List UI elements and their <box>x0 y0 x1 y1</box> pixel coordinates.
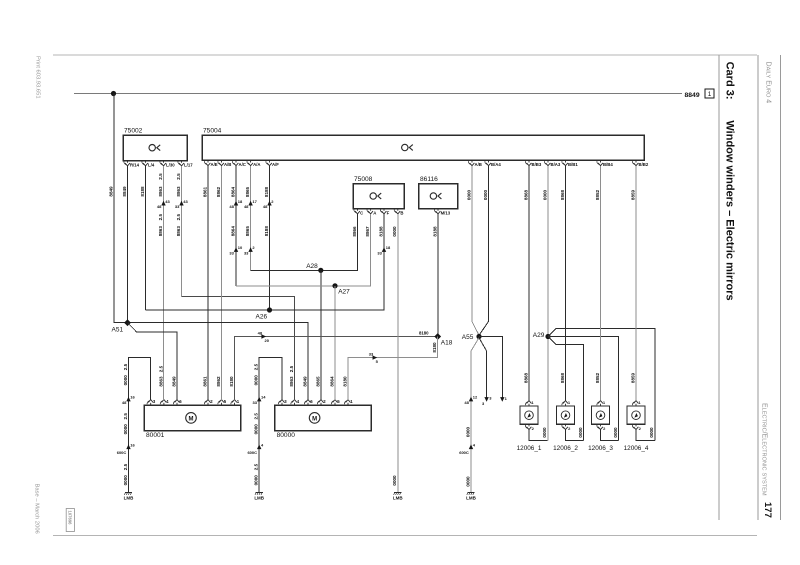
svg-text:0000: 0000 <box>254 475 259 486</box>
wire 12006_4 return to rail <box>636 430 655 441</box>
svg-text:0000: 0000 <box>392 226 397 237</box>
svg-text:8868: 8868 <box>560 189 565 200</box>
switch 86116 <box>419 184 458 209</box>
svg-text:8868: 8868 <box>560 372 565 383</box>
svg-text:A27: A27 <box>338 289 350 296</box>
ground branch 80000 <box>259 358 282 493</box>
wire 8864 from A/C to A27 <box>235 166 237 286</box>
svg-text:8849: 8849 <box>685 92 700 99</box>
svg-text:16: 16 <box>130 395 135 400</box>
svg-text:0000: 0000 <box>613 427 618 438</box>
node A18 <box>434 333 441 340</box>
svg-text:0000: 0000 <box>483 189 488 200</box>
svg-text:F: F <box>387 210 390 215</box>
wire 8188 from A/F to A26 <box>269 166 271 310</box>
wire A28 to 80000 pin 2 <box>320 270 322 400</box>
svg-text:Base – March 2006: Base – March 2006 <box>34 484 40 534</box>
svg-text:33: 33 <box>244 250 249 255</box>
svg-text:LMB: LMB <box>254 496 264 501</box>
node A51 <box>124 319 131 326</box>
ground LMB 80001 <box>125 492 132 494</box>
junction 48/20 <box>261 334 266 338</box>
svg-text:8863: 8863 <box>158 186 163 197</box>
pin 1 of 80001 <box>234 403 236 405</box>
svg-text:A18: A18 <box>441 340 453 347</box>
sheet reference box 1 <box>705 89 714 98</box>
svg-text:2.5: 2.5 <box>254 463 259 470</box>
svg-text:B/B3: B/B3 <box>532 162 542 167</box>
pin 5 of 80000 <box>334 403 336 405</box>
pin B of 75008 <box>397 209 399 211</box>
svg-text:8862: 8862 <box>216 186 221 197</box>
wire A51 to 80001 pin 6 <box>128 323 178 400</box>
svg-text:1: 1 <box>708 91 712 98</box>
svg-text:8180: 8180 <box>419 330 429 335</box>
svg-text:A/E: A/E <box>211 162 218 167</box>
wire 8865 from A/A to A28 <box>250 166 252 270</box>
svg-text:LMB: LMB <box>124 496 134 501</box>
svg-text:A51: A51 <box>112 326 124 333</box>
page frame top hairline <box>53 54 757 56</box>
svg-text:A/F: A/F <box>272 162 279 167</box>
window winder motor 80001 <box>144 405 241 431</box>
svg-text:A55: A55 <box>462 334 474 341</box>
svg-text:12006_3: 12006_3 <box>588 445 613 452</box>
svg-text:A/C: A/C <box>239 162 246 167</box>
svg-text:8188: 8188 <box>264 186 269 197</box>
pin A/A of 75004 <box>250 160 252 162</box>
node: bus junction <box>111 91 116 96</box>
svg-text:8852: 8852 <box>595 372 600 383</box>
wire 0000 B/A4 to A55 <box>479 166 489 335</box>
svg-text:8865: 8865 <box>315 376 320 387</box>
svg-text:0000: 0000 <box>578 427 583 438</box>
svg-text:48: 48 <box>157 204 162 209</box>
right sidebar title rule <box>718 55 720 520</box>
svg-text:M: M <box>189 416 194 422</box>
pin B/B2 of 75004 <box>635 160 637 162</box>
wire 12006_2 return to rail <box>566 430 584 441</box>
svg-text:14: 14 <box>261 395 266 400</box>
A29 branch middle to 12006_3 return <box>548 337 619 441</box>
svg-text:2.5: 2.5 <box>176 173 181 180</box>
A29 branch lower to 12006_2 return <box>548 337 584 441</box>
svg-text:C: C <box>360 210 363 215</box>
svg-text:0000: 0000 <box>542 427 547 438</box>
pin 2 of 12006_3 <box>600 424 602 426</box>
mirror actuator 12006_3 <box>592 406 610 424</box>
ground LMB 80000 <box>256 492 263 494</box>
svg-text:8861: 8861 <box>202 186 207 197</box>
pin 2 of 12006_4 <box>635 424 637 426</box>
wire A27 to 80000 pin 5 <box>334 286 336 400</box>
splice 600C 80000 <box>257 444 261 449</box>
svg-text:B/B1: B/B1 <box>568 162 578 167</box>
wire A18 to 80000 pin 1 <box>348 337 438 400</box>
svg-text:8865: 8865 <box>245 226 250 237</box>
svg-text:8867: 8867 <box>365 226 370 237</box>
svg-text:8180: 8180 <box>432 342 437 353</box>
svg-text:20: 20 <box>265 338 270 343</box>
bus wire 8849 <box>74 93 682 95</box>
svg-text:12006_2: 12006_2 <box>553 445 578 452</box>
svg-text:B/A4: B/A4 <box>491 162 501 167</box>
svg-text:107696: 107696 <box>68 511 73 526</box>
svg-text:177: 177 <box>762 502 773 518</box>
ground LMB A55 <box>467 492 474 494</box>
A29 branch upper to 12006_4 return <box>548 329 655 441</box>
pin 1 of 12006_1 <box>528 404 530 406</box>
svg-text:B/B4: B/B4 <box>603 162 613 167</box>
node A29 <box>545 334 550 339</box>
splice 600C 80001 <box>126 444 130 449</box>
node A27 <box>332 283 337 288</box>
svg-text:0000: 0000 <box>649 427 654 438</box>
svg-text:33: 33 <box>175 204 180 209</box>
wire 86116 M/13 to A18 <box>437 214 439 337</box>
wire 0000 75008 pin B to ground <box>397 214 399 493</box>
svg-text:2.5: 2.5 <box>158 214 163 221</box>
pin A of 75008 <box>370 209 372 211</box>
svg-text:0000: 0000 <box>123 424 128 435</box>
svg-text:12006_1: 12006_1 <box>517 445 542 452</box>
svg-text:43: 43 <box>165 199 170 204</box>
svg-text:8852: 8852 <box>595 189 600 200</box>
svg-text:0000: 0000 <box>254 424 259 435</box>
svg-text:8863: 8863 <box>289 376 294 387</box>
svg-text:2.5: 2.5 <box>123 463 128 470</box>
svg-text:Print 603.93.651: Print 603.93.651 <box>34 56 40 99</box>
wire 8852 B/B4 to 12006_3 <box>600 166 602 401</box>
svg-text:8868: 8868 <box>523 372 528 383</box>
svg-text:2.5: 2.5 <box>254 363 259 370</box>
ground LMB 75008 <box>394 492 401 494</box>
svg-text:17: 17 <box>252 199 257 204</box>
svg-text:ELECTRIC/ELECTRONIC SYSTEM: ELECTRIC/ELECTRONIC SYSTEM <box>761 403 768 496</box>
svg-text:8849: 8849 <box>108 186 113 197</box>
mirror actuator 12006_1 <box>520 406 538 424</box>
svg-text:80000: 80000 <box>277 432 296 439</box>
svg-text:600C: 600C <box>459 450 469 455</box>
svg-text:2.5: 2.5 <box>176 214 181 221</box>
svg-text:Window winders – Electric mirr: Window winders – Electric mirrors <box>723 120 735 300</box>
node A26 <box>267 307 272 312</box>
svg-text:0000: 0000 <box>123 475 128 486</box>
pin B/A4 of 75004 <box>488 160 490 162</box>
wire 8188 from L/4 to A26 <box>145 166 147 310</box>
svg-text:33: 33 <box>229 250 234 255</box>
svg-text:8849: 8849 <box>122 186 127 197</box>
svg-text:48: 48 <box>258 331 263 336</box>
svg-text:2.5: 2.5 <box>123 363 128 370</box>
switch unit 75004 <box>202 135 644 160</box>
svg-text:16: 16 <box>130 442 135 447</box>
svg-text:B/B2: B/B2 <box>639 162 649 167</box>
svg-text:75008: 75008 <box>354 176 373 183</box>
svg-text:18: 18 <box>386 245 391 250</box>
svg-text:43: 43 <box>183 199 188 204</box>
svg-text:A/B: A/B <box>224 162 231 167</box>
svg-text:8863: 8863 <box>176 186 181 197</box>
wire A55 branch right <box>479 337 502 398</box>
wire 8849 from R/14 to A51 <box>127 166 129 323</box>
svg-text:8859: 8859 <box>630 189 635 200</box>
svg-text:0000: 0000 <box>466 189 471 200</box>
pin 4 of 80001 <box>163 403 165 405</box>
svg-text:8868: 8868 <box>523 189 528 200</box>
svg-text:8180: 8180 <box>229 376 234 387</box>
svg-text:75002: 75002 <box>124 128 143 135</box>
pin A/C of 75004 <box>235 160 237 162</box>
wire 8849 bus drop to A51 <box>114 94 128 323</box>
svg-text:8849: 8849 <box>171 376 176 387</box>
svg-text:8863: 8863 <box>176 226 181 237</box>
svg-text:A29: A29 <box>533 332 545 339</box>
svg-text:2.5: 2.5 <box>158 173 163 180</box>
svg-text:48: 48 <box>263 204 268 209</box>
svg-text:18: 18 <box>238 199 243 204</box>
pin A/F of 75004 <box>269 160 271 162</box>
svg-text:M: M <box>312 416 317 422</box>
svg-text:8864: 8864 <box>230 226 235 237</box>
rail A26 <box>146 214 385 310</box>
mirror actuator 12006_2 <box>557 406 575 424</box>
svg-text:8866: 8866 <box>352 226 357 237</box>
junction markers on switch wires <box>161 201 165 206</box>
svg-text:12006_4: 12006_4 <box>624 445 649 452</box>
wire 0000 B/A3 through A29 to 12006_1 return <box>547 166 549 441</box>
switch 75008 <box>353 184 404 209</box>
svg-text:8188: 8188 <box>140 186 145 197</box>
svg-text:0000: 0000 <box>542 189 547 200</box>
wire 12006_3 return to rail <box>601 430 619 441</box>
wire A55 branch down <box>479 338 487 398</box>
svg-text:Card 3:: Card 3: <box>723 62 735 100</box>
mirror actuator 12006_4 <box>627 406 645 424</box>
wire 8861 from A/E to 80001 pin 2 <box>207 166 209 400</box>
pin 5 of 80001 <box>221 403 223 405</box>
pin 1 of 12006_4 <box>635 404 637 406</box>
wire 8863 L/17 run to 80000 pin 4 <box>182 297 295 400</box>
svg-text:L/30: L/30 <box>166 162 175 167</box>
svg-text:DAILY EURO 4: DAILY EURO 4 <box>764 62 771 104</box>
pin 4 of 80000 <box>294 403 296 405</box>
svg-text:8859: 8859 <box>630 372 635 383</box>
svg-text:L/4: L/4 <box>148 162 155 167</box>
stamp box 107696 <box>66 509 74 532</box>
rail 80001 pin 1 to A18 <box>235 337 438 400</box>
pin C of 75008 <box>357 209 359 211</box>
pin F of 75008 <box>383 209 385 211</box>
pin B/B3 of 75004 <box>528 160 530 162</box>
pin 2 of 12006_1 <box>528 424 530 426</box>
svg-text:8188: 8188 <box>378 226 383 237</box>
svg-text:L/17: L/17 <box>184 162 193 167</box>
right sidebar outer rule <box>780 55 782 520</box>
svg-text:8865: 8865 <box>245 186 250 197</box>
pin A/B of 75004 <box>221 160 223 162</box>
svg-text:600C: 600C <box>117 450 127 455</box>
rail A51 to 80000 pin 6 <box>114 323 308 400</box>
svg-text:8863: 8863 <box>158 376 163 387</box>
svg-text:B: B <box>400 210 403 215</box>
pin 3 of 80001 <box>150 403 152 405</box>
svg-text:M/13: M/13 <box>441 210 451 215</box>
svg-text:33: 33 <box>369 352 374 357</box>
pin R/14 of 75002 <box>127 161 129 163</box>
svg-text:8862: 8862 <box>216 376 221 387</box>
svg-text:A/B: A/B <box>475 162 482 167</box>
wire 8863 from L/30 to 80001 pin 4 <box>163 166 165 400</box>
pin 2 of 80000 <box>320 403 322 405</box>
svg-text:0000: 0000 <box>254 375 259 386</box>
svg-text:2.5: 2.5 <box>123 413 128 420</box>
svg-text:33: 33 <box>377 250 382 255</box>
svg-text:8863: 8863 <box>158 226 163 237</box>
svg-text:600C: 600C <box>247 450 257 455</box>
pin 6 of 80000 <box>307 403 309 405</box>
pin 6 of 80001 <box>176 403 178 405</box>
pin L/30 of 75002 <box>163 161 165 163</box>
svg-text:48: 48 <box>229 204 234 209</box>
svg-text:48: 48 <box>244 204 249 209</box>
svg-text:8864: 8864 <box>230 186 235 197</box>
pin 2 of 80001 <box>207 403 209 405</box>
pin 3 of 80000 <box>281 403 283 405</box>
rail A28 <box>251 214 358 270</box>
wire 8862 from A/B to 80001 pin 5 <box>221 166 223 400</box>
svg-text:2.5: 2.5 <box>289 365 294 372</box>
svg-text:0000: 0000 <box>465 426 470 437</box>
wire 8868 B/B1 to 12006_2 <box>565 166 567 401</box>
pin 1 of 80000 <box>347 403 349 405</box>
junction 33/5 <box>373 355 378 359</box>
wire 0000 A/B right to A55 <box>472 166 479 335</box>
rail A27 <box>236 214 371 286</box>
svg-text:A: A <box>373 210 376 215</box>
wire 8859 B/B2 to 12006_4 <box>635 166 637 401</box>
svg-text:86116: 86116 <box>420 176 438 183</box>
svg-text:8861: 8861 <box>202 376 207 387</box>
ground branch 80001 <box>129 358 151 493</box>
pin M/13 of 86116 <box>437 209 439 211</box>
svg-text:A/A: A/A <box>253 162 260 167</box>
pin A/B of 75004 <box>471 160 473 162</box>
pin 2 of 12006_2 <box>565 424 567 426</box>
wire A55 down-left to ground <box>471 338 479 493</box>
svg-text:80001: 80001 <box>146 432 165 439</box>
svg-text:8864: 8864 <box>329 376 334 387</box>
svg-text:A28: A28 <box>306 263 318 270</box>
svg-text:0000: 0000 <box>392 475 397 486</box>
pin B/B1 of 75004 <box>565 160 567 162</box>
svg-text:12: 12 <box>473 395 478 400</box>
pin A/E of 75004 <box>207 160 209 162</box>
node A28 <box>318 268 323 273</box>
switch 75002 <box>123 135 187 161</box>
svg-text:LMB: LMB <box>466 496 476 501</box>
svg-text:2.5: 2.5 <box>158 365 163 372</box>
svg-text:10: 10 <box>238 245 243 250</box>
pin L/4 of 75002 <box>145 161 147 163</box>
svg-text:2.5: 2.5 <box>254 413 259 420</box>
pin 1 of 12006_3 <box>600 404 602 406</box>
node A55 <box>476 334 481 339</box>
pin 1 of 12006_2 <box>565 404 567 406</box>
pin B/B4 of 75004 <box>600 160 602 162</box>
svg-text:8849: 8849 <box>302 376 307 387</box>
page frame bottom hairline <box>53 535 757 537</box>
svg-text:8188: 8188 <box>264 226 269 237</box>
svg-text:8180: 8180 <box>342 376 347 387</box>
wire 12006_1 return to rail <box>529 430 548 441</box>
svg-text:0000: 0000 <box>123 375 128 386</box>
svg-text:75004: 75004 <box>203 128 222 135</box>
pin B/A3 of 75004 <box>547 160 549 162</box>
svg-text:LMB: LMB <box>393 496 403 501</box>
svg-text:0000: 0000 <box>465 476 470 487</box>
svg-text:8188: 8188 <box>432 226 437 237</box>
svg-text:48: 48 <box>464 400 469 405</box>
svg-text:R/14: R/14 <box>130 162 140 167</box>
svg-text:33: 33 <box>253 400 258 405</box>
svg-text:B/A3: B/A3 <box>551 162 561 167</box>
window winder motor 80000 <box>275 405 372 431</box>
pin L/17 of 75002 <box>181 161 183 163</box>
svg-text:48: 48 <box>122 400 127 405</box>
wire 8868 B/B3 to 12006_1 <box>528 166 530 401</box>
wire 8863 from L/17 <box>181 166 183 297</box>
right sidebar inner rule <box>757 55 759 520</box>
svg-text:A26: A26 <box>256 313 268 320</box>
